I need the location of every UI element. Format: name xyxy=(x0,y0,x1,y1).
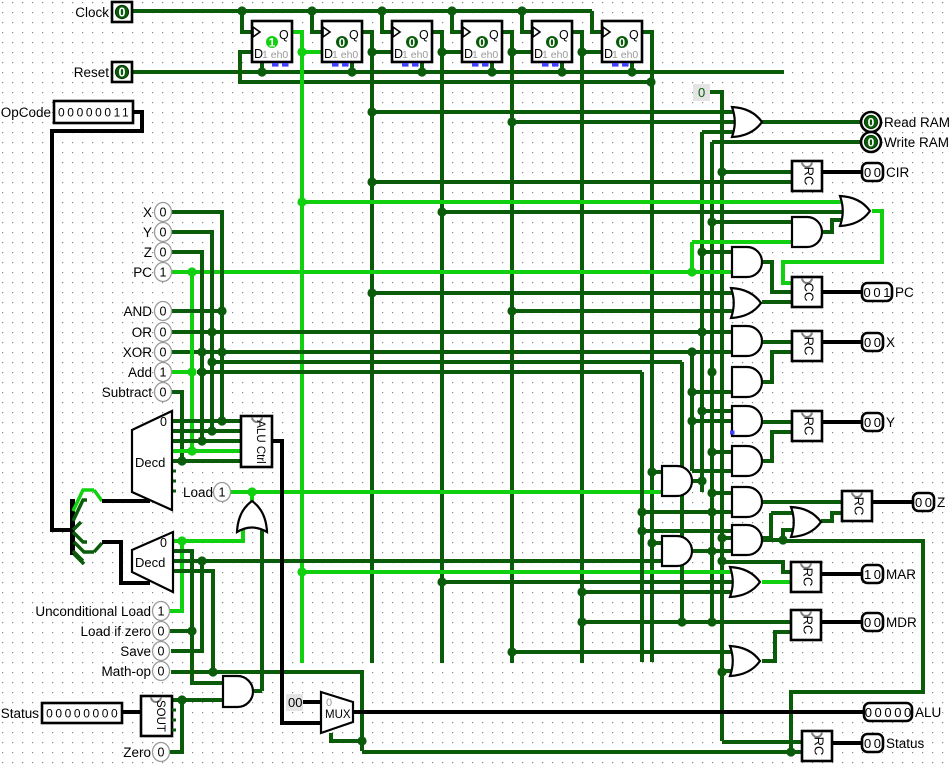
svg-text:0: 0 xyxy=(160,206,167,220)
probe Zero xyxy=(123,743,169,762)
svg-text:1 eh0: 1 eh0 xyxy=(402,49,428,61)
junction T3 y582 xyxy=(437,577,446,586)
svg-text:00: 00 xyxy=(864,736,884,751)
wire FF2 reset stub xyxy=(350,62,354,72)
junction x212 y362 xyxy=(207,357,216,366)
decoder Decd1 xyxy=(132,411,172,510)
svg-text:RC: RC xyxy=(812,737,827,756)
wire ORmar out to MAR reg xyxy=(762,580,792,584)
output pin Write RAM xyxy=(861,132,949,152)
and-gate AND6 xyxy=(732,487,762,517)
output pin Y xyxy=(862,413,895,431)
wire decd1.out4 y461 xyxy=(172,459,241,463)
wire X probe to decd1.out0 xyxy=(171,212,222,420)
svg-text:Status: Status xyxy=(1,706,40,721)
wire AND1.in2 y242 xyxy=(692,240,792,244)
wire splitter bit2 xyxy=(73,500,87,521)
junction clock bus xyxy=(237,6,246,15)
svg-text:0: 0 xyxy=(160,305,167,319)
wire FF4.Q link xyxy=(502,32,532,52)
junction reset xyxy=(417,67,426,76)
wire AND4.in1 y411 xyxy=(702,409,732,413)
bus MDR reg out xyxy=(821,620,862,624)
wire decd1.out0 y421 xyxy=(172,419,241,423)
junction x702 y411 xyxy=(697,406,706,415)
wire vertical x642 xyxy=(640,372,644,662)
junction x192 y631 xyxy=(187,626,196,635)
wire splitter stub c xyxy=(73,551,83,561)
wire clock drop FF2 xyxy=(312,11,322,32)
svg-text:0: 0 xyxy=(160,415,167,429)
svg-text:00000011: 00000011 xyxy=(58,106,131,120)
svg-text:RC: RC xyxy=(801,616,816,635)
or-gate OR2 PC xyxy=(840,196,870,226)
input pin OpCode xyxy=(1,101,133,123)
junction T1 xyxy=(297,47,306,56)
svg-text:0: 0 xyxy=(698,85,705,100)
wire SOUT nub y730 xyxy=(172,729,176,732)
wire ANDA out xyxy=(692,479,702,483)
wire ORZ out to Z.in2 xyxy=(821,513,842,521)
junction x712 y493 xyxy=(707,488,716,497)
junction x182 y541 xyxy=(177,536,186,545)
bus MAR reg out xyxy=(821,572,862,576)
probe XOR xyxy=(123,343,172,362)
junction x692 y272 xyxy=(687,267,696,276)
junction x702 y332b xyxy=(697,327,706,336)
svg-text:0: 0 xyxy=(160,226,167,240)
wire FF1.Q link xyxy=(292,32,322,52)
wire SOUT nub y710 xyxy=(172,709,176,712)
junction clock bus xyxy=(377,6,386,15)
svg-text:Math-op: Math-op xyxy=(101,664,151,679)
junction T4 xyxy=(507,47,516,56)
wire OR1.in3 y132 xyxy=(702,130,740,134)
wire AND1.in1 y222 xyxy=(712,220,792,224)
probe Subtract xyxy=(102,383,172,402)
svg-text:0: 0 xyxy=(326,697,332,709)
junction T2 y293 xyxy=(367,288,376,297)
svg-text:Q: Q xyxy=(419,28,429,42)
register PCC-reg xyxy=(792,277,822,307)
svg-text:00: 00 xyxy=(864,615,884,630)
wire decd1 nub y471 xyxy=(172,470,176,473)
register X-reg xyxy=(792,331,822,361)
svg-text:Load if zero: Load if zero xyxy=(80,624,151,639)
wire ORB out to MDR.in2 xyxy=(762,632,791,661)
wire y531 to AND7.in1 xyxy=(642,529,732,533)
wire AND3 out to X.in1 xyxy=(762,340,792,344)
or-gate ORMAR xyxy=(730,567,760,597)
wire right loop to Status xyxy=(783,541,923,752)
svg-text:RC: RC xyxy=(802,167,817,186)
bus decd2 select xyxy=(102,542,150,583)
bus const00 to MUX.in0 xyxy=(302,700,321,704)
and-gate ANDzero xyxy=(223,676,253,707)
svg-text:00: 00 xyxy=(288,695,302,710)
wire T4 vertical x512 xyxy=(510,52,514,663)
svg-text:Load: Load xyxy=(183,485,213,500)
and-gate AND1 xyxy=(792,217,822,247)
wire splitter bit1 xyxy=(73,490,94,511)
wire AND2.in1 y252 xyxy=(702,250,732,254)
wire y362 xyxy=(212,360,682,364)
wire clock drop FF6 xyxy=(592,11,602,32)
wire y742 to Status.in1 xyxy=(722,740,802,744)
svg-text:0: 0 xyxy=(158,625,165,639)
svg-text:Clock: Clock xyxy=(75,5,109,20)
junction feedback x651 xyxy=(646,77,655,86)
junction reset xyxy=(257,67,266,76)
svg-text:10: 10 xyxy=(864,567,884,582)
probe OR xyxy=(132,323,172,342)
svg-text:1 eh0: 1 eh0 xyxy=(542,49,568,61)
wire ANDB out to AND7.in2 xyxy=(692,549,732,553)
probe PC xyxy=(133,263,171,282)
wire OR1 out to Read RAM xyxy=(762,120,861,124)
junction T5 y622 xyxy=(577,617,586,626)
output pin ALU xyxy=(864,703,941,721)
wire AND4.in2 y421 xyxy=(692,419,732,423)
output pin Z xyxy=(913,493,945,511)
or-gate ORload xyxy=(237,501,267,532)
or-gate OR3 xyxy=(731,288,761,318)
wire ORload.in2 vertical x262 xyxy=(260,527,264,691)
and-gate AND2 xyxy=(732,247,762,277)
wire AND probe y311 xyxy=(171,309,222,313)
junction T5 y592 xyxy=(577,587,586,596)
wire ANDB.in1 stub xyxy=(652,541,662,545)
junction x712 y622 xyxy=(707,617,716,626)
svg-text:0: 0 xyxy=(160,246,167,260)
wire Math-op y672 xyxy=(171,672,362,751)
wire PC row y272 xyxy=(171,270,732,274)
junction x222 y421 xyxy=(217,416,226,425)
wire clock drop FF5 xyxy=(522,11,532,32)
junction x702 y481 xyxy=(697,476,706,485)
junction T2 y112 xyxy=(367,107,376,116)
svg-text:RC: RC xyxy=(802,337,817,356)
wire T1 vertical x302 xyxy=(300,52,304,663)
input pin Clock xyxy=(75,2,132,22)
wire MUX select xyxy=(331,733,362,741)
wire Unconditional Load probe xyxy=(170,541,182,611)
wire ORZ.in1 stub xyxy=(771,511,799,515)
svg-text:1: 1 xyxy=(219,486,226,500)
wire T5 vertical x582 xyxy=(580,52,584,663)
junction clock bus xyxy=(307,6,316,15)
svg-text:Q: Q xyxy=(489,28,499,42)
svg-text:X: X xyxy=(143,205,152,220)
svg-text:OpCode: OpCode xyxy=(1,105,51,120)
svg-text:0: 0 xyxy=(339,38,345,50)
junction x362 y741 xyxy=(357,736,366,745)
probe Add xyxy=(128,363,172,382)
wire T2 vertical x372 xyxy=(370,52,374,663)
junction x202 y561 xyxy=(197,556,206,565)
wire ORload out xyxy=(250,492,254,501)
junction reset xyxy=(487,67,496,76)
svg-text:AND: AND xyxy=(123,304,152,319)
svg-text:Y: Y xyxy=(886,415,895,430)
wire FF4 reset stub xyxy=(490,62,494,72)
wire OR3.in2 y311 xyxy=(512,309,739,313)
junction x213 y672 xyxy=(208,667,217,676)
junction x202 y352 xyxy=(197,347,206,356)
junction T2 y182 xyxy=(367,177,376,186)
and-gate AND7 xyxy=(732,525,762,555)
wire vertical x702 xyxy=(700,132,704,492)
wire y592 to ORmar.in3 xyxy=(582,590,738,594)
wire to ORZ.in2 xyxy=(783,530,799,540)
wire decd1.out2 y441 xyxy=(172,439,241,443)
svg-text:Status: Status xyxy=(886,736,925,751)
and-gate ANDA xyxy=(662,466,692,496)
svg-text:1: 1 xyxy=(158,605,165,619)
and-gate AND4 xyxy=(732,406,762,436)
wire Load if zero probe xyxy=(169,629,192,633)
junction T3 xyxy=(437,47,446,56)
wire AND3b out to X.in2 xyxy=(762,352,792,382)
wire const0 vertical x722 xyxy=(706,92,722,741)
svg-text:0: 0 xyxy=(158,645,165,659)
svg-text:0: 0 xyxy=(619,38,625,50)
wire CIR.in2 y182 xyxy=(372,180,792,184)
wire decd1.out1 y431 xyxy=(172,429,241,433)
junction x212 y431 xyxy=(207,426,216,435)
decoder Decd2 xyxy=(132,532,173,592)
wire T6 vertical x652 xyxy=(650,82,654,662)
wire Save probe xyxy=(171,561,202,651)
wire Load row y492 xyxy=(230,490,662,494)
bus PCC reg out xyxy=(822,290,862,294)
junction T6 y472 xyxy=(647,467,656,476)
junction x702 y252 xyxy=(697,247,706,256)
wire feedback FF6Q to FF1D xyxy=(240,52,651,82)
wire y752 to Status.in2 xyxy=(362,750,802,754)
junction x222 y352 xyxy=(217,347,226,356)
svg-text:0: 0 xyxy=(160,326,167,340)
svg-text:0: 0 xyxy=(549,38,555,50)
junction x192 y372 xyxy=(187,367,196,376)
svg-text:CC: CC xyxy=(802,283,817,302)
probe Math-op xyxy=(101,662,169,681)
svg-text:PC: PC xyxy=(895,285,914,300)
junction T2 xyxy=(367,47,376,56)
wire FF5 reset stub xyxy=(560,62,564,72)
junction x712 y452 xyxy=(707,447,716,456)
svg-text:001: 001 xyxy=(864,285,894,300)
svg-text:Q: Q xyxy=(559,28,569,42)
or-gate ORZ xyxy=(791,507,821,537)
output pin MDR xyxy=(862,613,917,631)
svg-text:Reset: Reset xyxy=(74,65,110,80)
junction x722 y172 xyxy=(717,167,726,176)
wire splitter stub b xyxy=(73,532,87,542)
wire T3 vertical x442 xyxy=(440,52,444,663)
wire ANDzero out xyxy=(253,689,262,693)
svg-text:1: 1 xyxy=(160,366,167,380)
ALU Ctl box U-ALUCTL xyxy=(241,416,272,467)
svg-text:MUX: MUX xyxy=(325,709,351,721)
wire bright vertical x692 xyxy=(690,242,694,272)
svg-text:CIR: CIR xyxy=(886,165,910,180)
svg-text:0: 0 xyxy=(158,665,165,679)
svg-text:Q: Q xyxy=(629,28,639,42)
bus Z reg out xyxy=(872,500,913,504)
svg-text:00000: 00000 xyxy=(865,705,914,720)
svg-text:MAR: MAR xyxy=(886,567,916,582)
svg-text:0: 0 xyxy=(160,346,167,360)
svg-text:Decd: Decd xyxy=(135,555,165,570)
wire reset bus xyxy=(131,70,784,74)
junction T6 y543 xyxy=(647,538,656,547)
svg-text:Z: Z xyxy=(937,495,945,510)
svg-text:0: 0 xyxy=(479,38,485,50)
junction x783 y540 xyxy=(778,535,787,544)
junction x722 y561 xyxy=(717,556,726,565)
wire clock drop FF3 xyxy=(382,11,392,32)
junction T4 y652 xyxy=(507,647,516,656)
junction x722 y672 xyxy=(717,667,726,676)
svg-text:0: 0 xyxy=(409,38,415,50)
svg-text:OR: OR xyxy=(132,325,153,340)
output pin PC xyxy=(862,283,914,301)
wire Y probe vertical x212 xyxy=(171,232,212,431)
junction x202 y441 xyxy=(197,436,206,445)
wire CIR.in1 y172 xyxy=(722,170,792,174)
svg-text:0: 0 xyxy=(158,746,165,760)
register MAR-reg xyxy=(791,562,821,592)
wire decd2.out0 to ORload.in1 xyxy=(173,527,243,541)
junction x192 y272 xyxy=(187,267,196,276)
probe Y xyxy=(143,223,172,242)
svg-text:Subtract: Subtract xyxy=(102,385,153,400)
register Z-reg xyxy=(842,491,872,521)
bus X reg out xyxy=(822,340,862,344)
probe Load if zero xyxy=(80,622,169,641)
wire y372 xyxy=(197,370,642,374)
wire FF6 reset stub xyxy=(630,62,634,72)
junction x702 y332 xyxy=(697,327,706,336)
junction clock bus xyxy=(447,6,456,15)
junction x642 y531 xyxy=(637,526,646,535)
wire y622 to MDR.in1 xyxy=(582,620,791,624)
bus Status reg out xyxy=(832,741,862,745)
wire clock drop FF1 xyxy=(242,11,252,32)
svg-text:00: 00 xyxy=(864,165,884,180)
wire decd2.out2 y561 xyxy=(173,559,662,563)
svg-text:Zero: Zero xyxy=(123,745,151,760)
wire FF3 reset stub xyxy=(420,62,424,72)
junction x192 y451 xyxy=(187,446,196,455)
svg-text:0: 0 xyxy=(868,136,875,150)
wire AND5.in1 y452 xyxy=(712,450,732,454)
wire PC vertical x192 xyxy=(190,272,194,451)
junction x642 y512 xyxy=(637,507,646,516)
svg-text:0: 0 xyxy=(119,66,126,80)
input pin Reset xyxy=(74,62,132,82)
wire splitter bit0 xyxy=(74,542,94,552)
junction x712 y551 xyxy=(707,546,716,555)
constant 00 xyxy=(286,694,303,711)
wire AND7 out xyxy=(762,538,783,542)
wire Write RAM y142 xyxy=(712,140,861,144)
output pin CIR xyxy=(862,163,910,181)
svg-text:ALU: ALU xyxy=(915,705,941,720)
junction x182 y461 xyxy=(177,456,186,465)
wire T1 to OR2.in1 y202 xyxy=(302,200,848,204)
wire clock drop FF4 xyxy=(452,11,462,32)
svg-text:1: 1 xyxy=(269,38,276,50)
svg-text:1 eh0: 1 eh0 xyxy=(262,49,288,61)
junction x212 y332 xyxy=(207,327,216,336)
wire OR-row y332 xyxy=(171,330,732,334)
output pin MAR xyxy=(862,565,916,583)
svg-text:0: 0 xyxy=(160,386,167,400)
svg-text:1 eh0: 1 eh0 xyxy=(332,49,358,61)
junction T5 xyxy=(577,47,586,56)
register CIR-reg xyxy=(792,161,822,191)
junction x712 y222 xyxy=(707,217,716,226)
svg-text:Z: Z xyxy=(144,245,152,260)
svg-text:Decd: Decd xyxy=(135,455,165,470)
wire FF1 reset stub xyxy=(260,62,264,72)
svg-text:Add: Add xyxy=(128,365,152,380)
wire splitter stub d xyxy=(74,554,84,564)
bus ALU Ctl to MUX.in1 xyxy=(272,441,321,723)
wire Subtract to y461 xyxy=(171,392,182,461)
wire FF6.Q link xyxy=(642,32,652,82)
svg-text:XOR: XOR xyxy=(123,345,153,360)
or-gate ORB xyxy=(730,646,760,676)
svg-text:MDR: MDR xyxy=(886,615,917,630)
svg-text:Unconditional Load: Unconditional Load xyxy=(35,604,151,619)
wire vertical x682 xyxy=(680,362,684,622)
or-gate OR1 ReadRAM xyxy=(732,107,762,137)
junction x252 y492 xyxy=(247,487,256,496)
svg-text:0: 0 xyxy=(868,116,875,130)
wire OR2 out to PCC.in0 xyxy=(783,211,882,283)
wire decd2.out3 x213 xyxy=(173,571,213,672)
wire clock bus xyxy=(131,9,592,13)
svg-text:Save: Save xyxy=(120,644,151,659)
and-gate ANDB xyxy=(662,536,692,566)
wire AND1 out to OR2.in2 xyxy=(822,220,848,232)
wire FF3.Q link xyxy=(432,32,462,52)
junction x712 y372 xyxy=(707,367,716,376)
junction reset xyxy=(557,67,566,76)
wire XOR-row y352 xyxy=(171,350,732,354)
svg-text:0: 0 xyxy=(119,6,126,20)
svg-text:1 eh0: 1 eh0 xyxy=(612,49,638,61)
wire vertical x712 xyxy=(710,142,714,622)
bus decd1 select xyxy=(102,499,150,503)
svg-text:1: 1 xyxy=(160,266,167,280)
junction T4 y311 xyxy=(507,306,516,315)
and-gate AND3 xyxy=(732,326,762,356)
wire OR3.in1 y293 xyxy=(372,291,739,295)
junction x202 y372 xyxy=(197,367,206,376)
wire y582 to ORmar.in2 xyxy=(442,580,738,584)
bus CIR reg out xyxy=(822,170,862,174)
wire splitter bit1 down xyxy=(94,490,102,501)
wire x771 to x722 xyxy=(722,513,771,538)
junction x182 y700 xyxy=(177,695,186,704)
svg-text:Y: Y xyxy=(143,225,152,240)
wire OR probe y332 xyxy=(171,330,212,334)
wire AND6.in1 y493 xyxy=(712,491,732,495)
